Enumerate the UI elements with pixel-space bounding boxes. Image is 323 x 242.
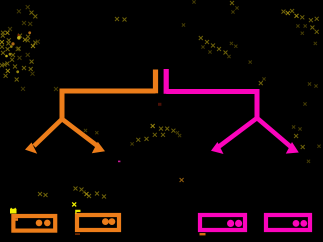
orange arrow to leaf box B2 (62, 119, 105, 153)
magenta arrow to leaf box B3 (211, 118, 257, 154)
B3 point dot 1 (227, 220, 234, 227)
leaf box B4 (266, 215, 310, 230)
data point chain upper-middle-right (199, 36, 231, 58)
data point cluster mid-center (84, 124, 181, 145)
bright dots in top-left cluster (5, 31, 31, 73)
orange subtree root stem (153, 70, 158, 94)
leaf box B3 (200, 215, 245, 230)
dark tick below B2 (75, 233, 80, 235)
B1 corner yellow marker (11, 208, 17, 213)
stray magenta pixel (118, 161, 120, 163)
lone data point above magenta box (180, 178, 184, 182)
B1 inner tick (15, 218, 18, 221)
B2 point dot 1 (102, 218, 109, 225)
data point pair top-center (115, 0, 196, 26)
data points right side (259, 77, 321, 162)
dark red ghost below stems (158, 103, 161, 106)
B1 point dot 1 (36, 220, 43, 227)
leaf box B1 (13, 216, 55, 231)
orange dash under B3 (200, 233, 206, 235)
data points above orange boxes (38, 187, 106, 199)
magenta arrow to leaf box B4 (257, 118, 299, 154)
orange arrow to leaf box B1 (25, 119, 62, 154)
B3 point dot 2 (235, 220, 242, 227)
leaf box B2 (77, 215, 119, 230)
orange branch elbow wire (62, 91, 156, 119)
magenta subtree root stem (164, 69, 169, 94)
magenta branch elbow wire (166, 92, 257, 119)
B2 corner yellow dash (75, 210, 80, 214)
B4 point dot 1 (293, 220, 300, 227)
data point cluster top-left (0, 5, 58, 91)
B4 point dot 2 (300, 220, 307, 227)
bright yellow x above B2 (72, 202, 76, 206)
data point cluster top-right (230, 1, 319, 64)
B2 point dot 2 (109, 218, 116, 225)
B1 point dot 2 (44, 220, 51, 227)
